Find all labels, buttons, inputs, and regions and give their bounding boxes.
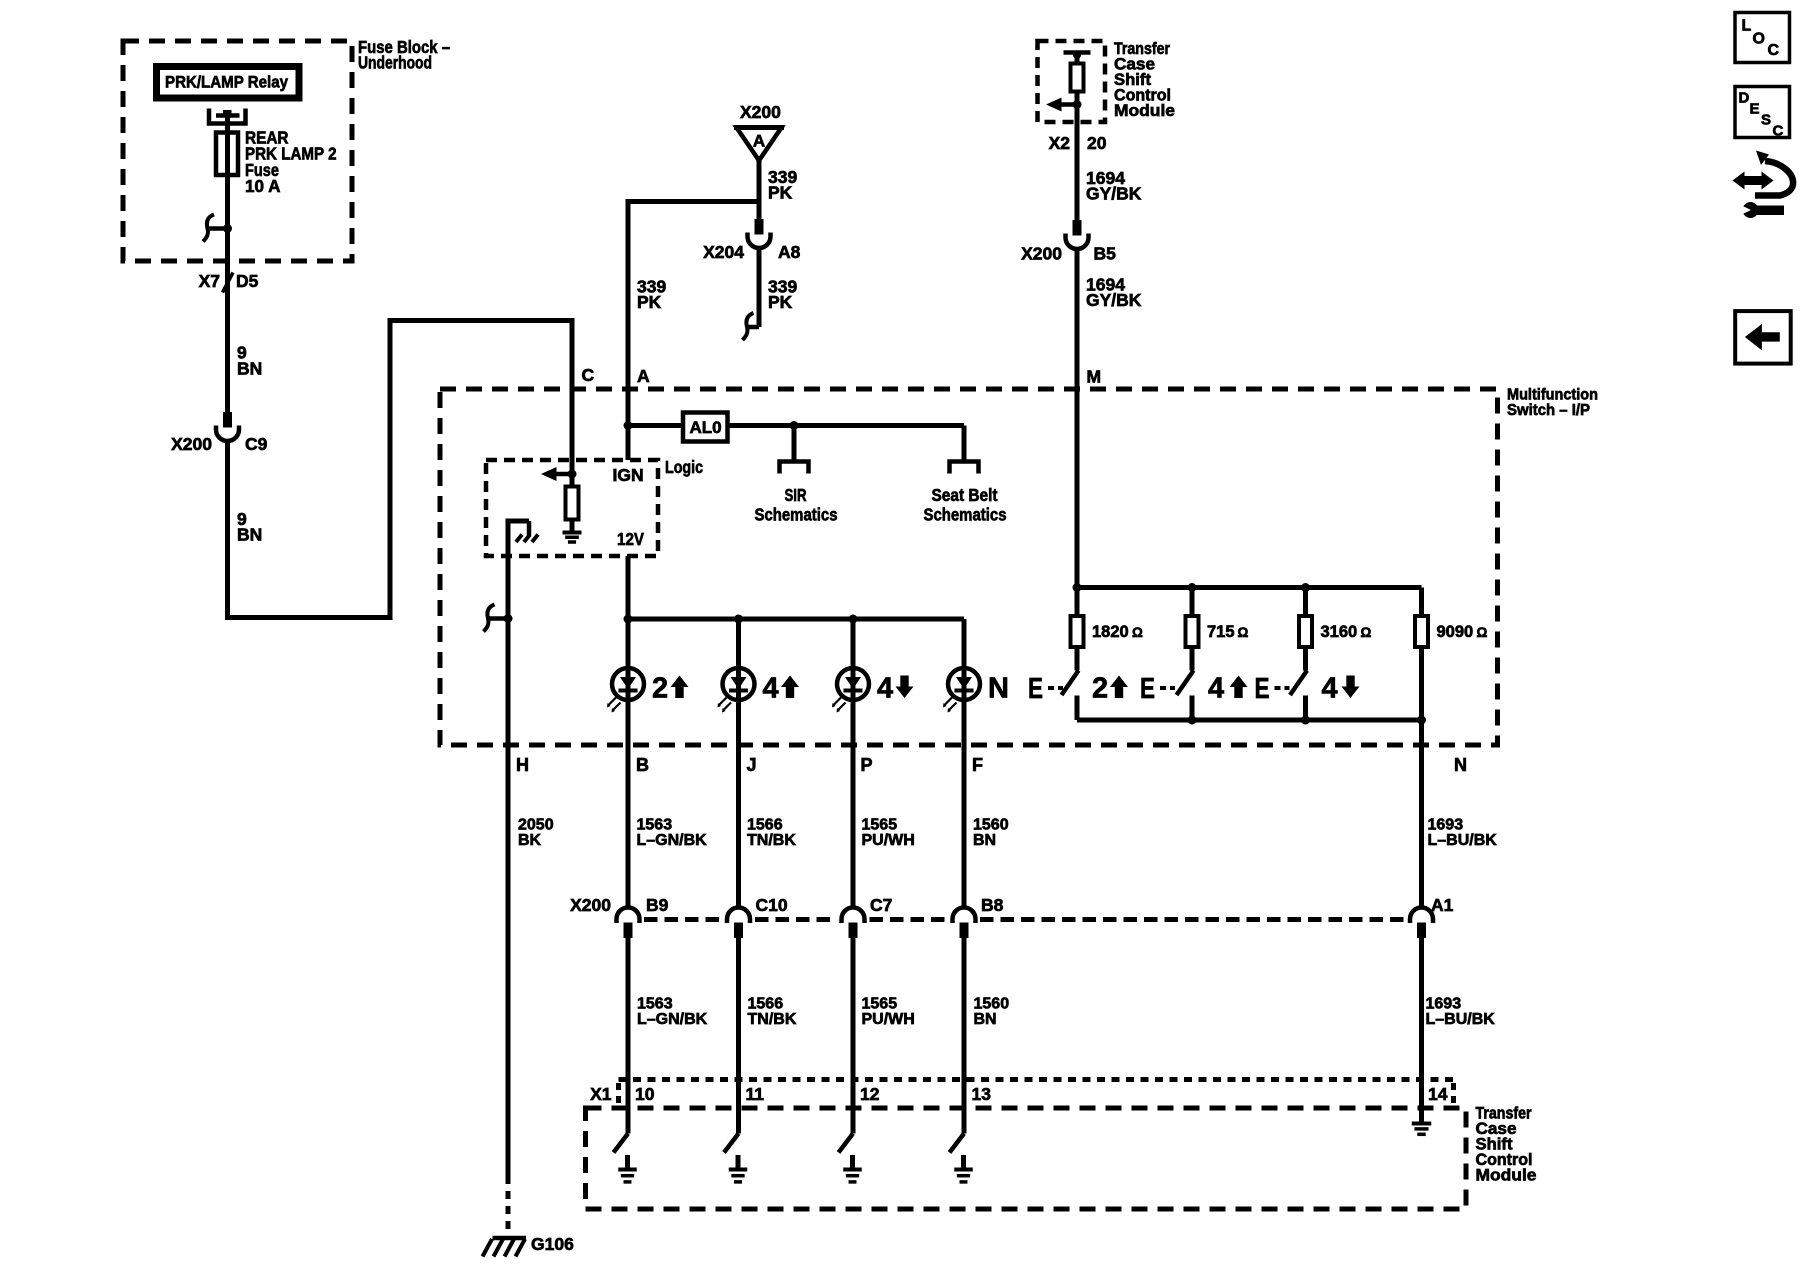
svg-text:G106: G106 — [531, 1234, 574, 1254]
svg-text:F: F — [972, 755, 983, 775]
svg-text:Seat Belt: Seat Belt — [932, 485, 998, 505]
svg-text:C: C — [1773, 123, 1784, 140]
svg-text:X204: X204 — [703, 242, 744, 262]
svg-text:B9: B9 — [646, 895, 669, 915]
svg-text:4: 4 — [763, 673, 779, 705]
svg-text:BN: BN — [237, 525, 262, 545]
svg-text:Schematics: Schematics — [924, 505, 1007, 525]
svg-text:C: C — [1768, 42, 1780, 59]
svg-text:X200: X200 — [570, 895, 611, 915]
svg-text:PK: PK — [768, 183, 793, 203]
svg-text:BN: BN — [973, 832, 996, 849]
svg-text:L–GN/BK: L–GN/BK — [637, 832, 708, 849]
svg-text:S: S — [1761, 112, 1771, 129]
svg-text:IGN: IGN — [613, 465, 644, 485]
svg-text:Multifunction: Multifunction — [1507, 387, 1598, 404]
svg-text:1693: 1693 — [1428, 817, 1464, 834]
svg-text:PRK/LAMP Relay: PRK/LAMP Relay — [165, 73, 288, 92]
svg-text:D: D — [1739, 90, 1750, 107]
svg-text:3160: 3160 — [1321, 623, 1358, 641]
svg-text:2: 2 — [652, 673, 668, 705]
svg-text:1566: 1566 — [748, 996, 784, 1013]
svg-text:E: E — [1255, 673, 1270, 705]
svg-text:1563: 1563 — [637, 996, 673, 1013]
svg-text:AL0: AL0 — [689, 418, 721, 437]
svg-text:L–BU/BK: L–BU/BK — [1426, 1011, 1496, 1028]
svg-text:J: J — [747, 755, 757, 775]
svg-text:Module: Module — [1114, 102, 1175, 120]
svg-text:X200: X200 — [740, 102, 781, 122]
svg-text:Module: Module — [1476, 1167, 1537, 1185]
svg-text:10 A: 10 A — [245, 176, 281, 196]
svg-text:TN/BK: TN/BK — [747, 832, 796, 849]
svg-text:X200: X200 — [171, 434, 212, 454]
svg-text:X200: X200 — [1021, 244, 1062, 264]
svg-text:13: 13 — [972, 1084, 992, 1104]
svg-text:PU/WH: PU/WH — [862, 1011, 915, 1028]
svg-text:B8: B8 — [981, 895, 1004, 915]
svg-text:14: 14 — [1428, 1084, 1448, 1104]
svg-text:C: C — [582, 365, 595, 385]
svg-text:Ω: Ω — [1132, 625, 1143, 640]
svg-text:C9: C9 — [245, 434, 268, 454]
svg-text:H: H — [516, 755, 529, 775]
svg-text:B: B — [636, 755, 649, 775]
svg-text:20: 20 — [1087, 133, 1107, 153]
svg-text:PK: PK — [768, 292, 793, 312]
svg-text:A: A — [637, 366, 650, 386]
svg-text:D5: D5 — [236, 271, 259, 291]
svg-text:A1: A1 — [1431, 895, 1454, 915]
svg-text:BN: BN — [974, 1011, 997, 1028]
svg-text:1565: 1565 — [862, 996, 898, 1013]
svg-text:GY/BK: GY/BK — [1086, 290, 1142, 310]
svg-text:1560: 1560 — [973, 817, 1009, 834]
svg-text:1566: 1566 — [747, 817, 783, 834]
svg-text:E: E — [1750, 101, 1760, 118]
svg-text:10: 10 — [635, 1084, 655, 1104]
svg-text:11: 11 — [746, 1084, 765, 1104]
svg-text:N: N — [988, 673, 1009, 705]
svg-text:X7: X7 — [199, 271, 220, 291]
svg-text:P: P — [861, 755, 873, 775]
svg-text:715: 715 — [1207, 623, 1235, 641]
svg-text:Schematics: Schematics — [755, 505, 838, 525]
svg-text:X2: X2 — [1049, 133, 1071, 153]
svg-text:4: 4 — [1322, 673, 1338, 705]
svg-text:M: M — [1087, 367, 1102, 387]
svg-text:4: 4 — [877, 673, 893, 705]
svg-text:E: E — [1028, 673, 1043, 705]
svg-text:A: A — [753, 132, 765, 151]
svg-text:Ω: Ω — [1477, 625, 1488, 640]
svg-text:L–GN/BK: L–GN/BK — [637, 1011, 708, 1028]
svg-text:4: 4 — [1208, 673, 1224, 705]
svg-text:C7: C7 — [870, 895, 892, 915]
svg-text:C10: C10 — [756, 895, 788, 915]
svg-text:Switch – I/P: Switch – I/P — [1507, 402, 1590, 419]
svg-text:Ω: Ω — [1361, 625, 1372, 640]
svg-text:Ω: Ω — [1238, 625, 1249, 640]
svg-text:Underhood: Underhood — [358, 53, 432, 73]
svg-text:BN: BN — [237, 359, 262, 379]
svg-text:B5: B5 — [1094, 244, 1117, 264]
svg-text:E: E — [1140, 673, 1155, 705]
svg-text:TN/BK: TN/BK — [748, 1011, 797, 1028]
svg-text:12V: 12V — [617, 529, 644, 549]
svg-text:L–BU/BK: L–BU/BK — [1428, 832, 1498, 849]
svg-text:2050: 2050 — [518, 817, 554, 834]
svg-text:O: O — [1753, 31, 1765, 48]
svg-text:1560: 1560 — [974, 996, 1010, 1013]
svg-text:GY/BK: GY/BK — [1086, 184, 1142, 204]
svg-text:Logic: Logic — [665, 457, 703, 477]
svg-text:12: 12 — [860, 1084, 880, 1104]
svg-text:9090: 9090 — [1437, 623, 1474, 641]
svg-text:BK: BK — [518, 832, 542, 849]
svg-text:A8: A8 — [778, 242, 801, 262]
svg-text:PU/WH: PU/WH — [862, 832, 915, 849]
svg-text:1820: 1820 — [1092, 623, 1129, 641]
svg-text:SIR: SIR — [785, 485, 807, 505]
svg-text:L: L — [1742, 18, 1752, 35]
svg-text:N: N — [1454, 755, 1467, 775]
svg-text:PK: PK — [637, 292, 662, 312]
svg-text:1693: 1693 — [1426, 996, 1462, 1013]
svg-text:1563: 1563 — [637, 817, 673, 834]
svg-text:X1: X1 — [590, 1084, 612, 1104]
svg-text:1565: 1565 — [862, 817, 898, 834]
svg-text:2: 2 — [1092, 673, 1108, 705]
